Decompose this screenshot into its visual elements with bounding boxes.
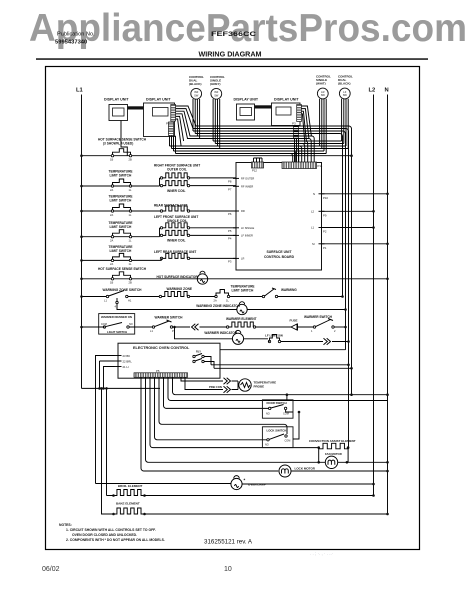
- wire box1 drop to row1: [121, 121, 127, 156]
- wire EOC drop 7: [146, 377, 318, 462]
- svg-text:P5: P5: [228, 229, 232, 233]
- wire row warmer: [82, 326, 105, 328]
- svg-text:(3 SHOWN, 4 USED): (3 SHOWN, 4 USED): [103, 142, 133, 146]
- wire lock switch right: [293, 412, 299, 439]
- svg-text:WARMER SWITCH: WARMER SWITCH: [155, 315, 184, 319]
- pin P10 board right N: [319, 193, 325, 195]
- svg-text:P: P: [172, 329, 174, 333]
- svg-text:LIMIT SWITCH: LIMIT SWITCH: [110, 225, 132, 229]
- wire P2 to L2 area: [322, 227, 374, 229]
- connector chevron probe 1: [224, 378, 231, 384]
- diagram border frame: [46, 67, 420, 550]
- wire LF limit to chevron: [268, 341, 323, 343]
- pin P1 board right SI: [319, 243, 325, 245]
- resistor RF outer coil: [160, 177, 162, 179]
- svg-text:WARMER INDICATOR: WARMER INDICATOR: [204, 331, 238, 335]
- warming zone switch S1: [106, 295, 108, 297]
- wire row LR: [82, 259, 162, 261]
- svg-text:SURFACE UNIT: SURFACE UNIT: [266, 250, 292, 254]
- wire EOC pin21 loop: [104, 367, 115, 389]
- svg-text:P12: P12: [252, 169, 257, 173]
- wire bundle line 8: [215, 144, 343, 163]
- svg-text:N: N: [385, 88, 389, 94]
- hot surface sense switch 1: [111, 155, 113, 157]
- svg-text:AppliancePartsPros.com: AppliancePartsPros.com: [29, 7, 467, 50]
- resistor RF inner coil: [160, 184, 162, 186]
- svg-text:06/02: 06/02: [42, 566, 60, 573]
- title underline rule: [36, 58, 428, 60]
- svg-text:1L: 1L: [129, 262, 132, 266]
- svg-text:L2: L2: [369, 88, 376, 94]
- pin P23 EOC: [115, 355, 122, 357]
- svg-text:P7: P7: [228, 188, 232, 192]
- LF limit switch S5: [268, 340, 270, 342]
- wire convection stubs: [319, 448, 348, 463]
- wire L1 rail: [81, 95, 83, 389]
- lamp warming zone indicator: [237, 304, 247, 314]
- wire relay output 1: [211, 364, 349, 366]
- resistor RR coil: [160, 210, 162, 212]
- svg-text:PRB CON: PRB CON: [209, 385, 222, 389]
- svg-text:4: 4: [115, 305, 117, 309]
- warmer limit switch S4: [313, 326, 315, 328]
- wire control C drops: [320, 99, 327, 154]
- svg-text:21 LI: 21 LI: [123, 365, 129, 369]
- pin P2 board right L1: [319, 227, 325, 229]
- wire bundle line 14 from U2 pins: [176, 116, 184, 146]
- control switch single grey B: [211, 88, 222, 99]
- svg-text:INNER COIL: INNER COIL: [167, 239, 185, 243]
- svg-text:2A: 2A: [110, 262, 113, 266]
- wire RF outer to P8: [190, 177, 236, 179]
- wire bundle line 4: [195, 134, 342, 297]
- svg-text:1L: 1L: [129, 188, 132, 192]
- svg-text:WARMER ELEMENT: WARMER ELEMENT: [226, 317, 257, 321]
- wire bake row: [145, 513, 388, 515]
- temperature limit switch 2: [111, 210, 113, 212]
- wire bundle line 11: [174, 151, 325, 163]
- pin P21 EOC: [115, 366, 122, 368]
- warmer drawer light switch box S2: [99, 314, 135, 335]
- wire limit switch to warming limit: [230, 296, 264, 298]
- svg-text:FAN MOTOR: FAN MOTOR: [325, 452, 342, 456]
- pin P22 EOC: [115, 360, 122, 362]
- resistor LF inner coil: [160, 234, 162, 236]
- svg-text:OUTER COIL: OUTER COIL: [167, 168, 187, 172]
- wire EOC pin22 loop: [100, 361, 115, 388]
- wire warmer indicator to LF limit: [244, 338, 268, 340]
- pin P4 board left: [233, 234, 239, 236]
- wire EOC drop 1: [173, 377, 388, 394]
- svg-text:1B: 1B: [110, 281, 113, 285]
- svg-text:23 BK: 23 BK: [123, 354, 131, 358]
- wire N rail: [387, 95, 389, 515]
- fuse F1: [291, 324, 298, 331]
- svg-text:INNER COIL: INNER COIL: [167, 189, 185, 193]
- svg-text:1L: 1L: [129, 239, 132, 243]
- svg-text:*: *: [244, 478, 246, 483]
- connector P1 display unit 2 right: [171, 105, 176, 122]
- wire EOC drop 5: [155, 377, 267, 440]
- pin P7 board left: [233, 185, 239, 187]
- svg-text:FEF366CC: FEF366CC: [211, 31, 257, 38]
- wire P9 to L2 rail: [322, 210, 374, 212]
- svg-text:N: N: [313, 192, 315, 196]
- svg-text:CONVECTION ASSIST ELEMENT: CONVECTION ASSIST ELEMENT: [309, 439, 356, 443]
- svg-text:RF INNER: RF INNER: [241, 185, 253, 189]
- connector P11 board top: [282, 162, 317, 169]
- svg-text:H1: H1: [128, 299, 132, 303]
- svg-text:COM: COM: [283, 413, 289, 416]
- svg-text:WARMING: WARMING: [281, 288, 297, 292]
- resistor warming zone element: [159, 295, 161, 297]
- wire door switch riser: [286, 395, 288, 400]
- lamp hot surface indicator: [197, 274, 207, 284]
- svg-text:NO: NO: [129, 323, 133, 326]
- svg-text:P3: P3: [228, 260, 232, 264]
- connector chevron probe 2: [224, 386, 231, 392]
- connector P12 board top small: [252, 162, 264, 168]
- resistor broil element: [114, 490, 145, 496]
- svg-text:WARMING ZONE: WARMING ZONE: [167, 287, 193, 291]
- svg-text:DISPLAY UNIT: DISPLAY UNIT: [104, 98, 129, 102]
- svg-text:Publication No.: Publication No.: [57, 32, 95, 38]
- svg-text:2B: 2B: [129, 158, 132, 162]
- svg-text:SI: SI: [312, 242, 315, 246]
- svg-text:P6: P6: [228, 212, 232, 216]
- svg-text:L1: L1: [311, 226, 315, 230]
- svg-text:DOOR SWITCH: DOOR SWITCH: [267, 401, 287, 405]
- resistor LF outer coil: [160, 227, 162, 229]
- wire bundle line 5: [176, 111, 315, 162]
- wire row hot-surface-2: [82, 278, 388, 280]
- temperature limit switch 3: [111, 236, 113, 238]
- temperature limit switch 1: [111, 185, 113, 187]
- wire EOC drop 3: [164, 377, 269, 408]
- svg-text:HOT SURFACE SENSE SWITCH: HOT SURFACE SENSE SWITCH: [98, 267, 147, 271]
- svg-text:LF INNER: LF INNER: [241, 234, 253, 238]
- wire P10 to N rail: [322, 193, 388, 195]
- svg-text:P1: P1: [323, 246, 327, 250]
- svg-text:P2: P2: [323, 230, 327, 234]
- svg-text:SW: SW: [321, 93, 326, 97]
- resistor convection assist element: [319, 443, 349, 449]
- wire box2 bottom stubs: [170, 136, 176, 154]
- resistor bake element: [114, 508, 145, 514]
- wire row LF: [82, 236, 160, 238]
- wire EOC drop 6: [150, 377, 319, 447]
- resistor LR coil: [160, 257, 162, 259]
- wire warming row to ribbon: [278, 296, 343, 298]
- svg-text:(GREY): (GREY): [210, 82, 221, 86]
- temperature limit switch 4: [111, 259, 113, 261]
- wire EOC pin23 loop: [96, 356, 115, 484]
- svg-text:L1: L1: [76, 88, 84, 94]
- wire broil feed drop: [106, 388, 108, 495]
- svg-text:SW: SW: [214, 93, 219, 97]
- svg-text:(WHIT): (WHIT): [316, 82, 326, 86]
- svg-text:LF SINGLE: LF SINGLE: [241, 226, 255, 230]
- svg-text:P5: P5: [156, 369, 160, 373]
- resistor warmer element: [226, 326, 228, 328]
- wire bundle line 12: [176, 154, 327, 163]
- wire control D drops: [342, 99, 349, 149]
- svg-text:LF LIMIT SW: LF LIMIT SW: [265, 333, 283, 337]
- svg-text:LR: LR: [241, 257, 244, 261]
- wire EOC drop 4: [159, 377, 287, 434]
- wire board P12 feeds: [254, 158, 263, 162]
- svg-text:DISPLAY UNIT: DISPLAY UNIT: [234, 98, 259, 102]
- svg-text:BROIL ELEMENT: BROIL ELEMENT: [118, 484, 143, 488]
- control switch dual black A: [191, 88, 202, 99]
- pin P8 board left: [233, 177, 239, 179]
- svg-text:PROBE: PROBE: [254, 385, 265, 389]
- wire bundle line 13 from U4 pins: [301, 106, 311, 144]
- wire row RR: [82, 210, 162, 212]
- lamp warmer indicator: [232, 333, 243, 344]
- svg-text:SW: SW: [343, 93, 348, 97]
- wire row hot-surface-1: [82, 155, 352, 157]
- wire oven lamp row: [96, 483, 374, 486]
- wire fuse to warmer limit switch: [298, 326, 315, 328]
- wire P1 to N rail: [322, 243, 388, 245]
- wire bundle line 2: [176, 109, 349, 448]
- svg-text:OVEN DOOR CLOSED AND UNLOCKED.: OVEN DOOR CLOSED AND UNLOCKED.: [72, 533, 137, 537]
- svg-text:1: 1: [311, 329, 313, 333]
- svg-text:10: 10: [224, 566, 232, 573]
- svg-text:LIMIT SWITCH: LIMIT SWITCH: [110, 174, 132, 178]
- connector chevron LF right: [324, 338, 331, 344]
- svg-text:1B: 1B: [110, 158, 113, 162]
- wire warmer element to fuse: [256, 326, 291, 328]
- wire warming indicator left: [117, 304, 237, 310]
- hot surface sense switch 2: [111, 278, 113, 280]
- svg-text:(BLACK): (BLACK): [189, 82, 202, 86]
- lock motor M2: [279, 465, 291, 477]
- svg-text:2A: 2A: [110, 213, 113, 217]
- lock switch S7 box: [262, 427, 293, 448]
- wire bundle line 6: [176, 114, 312, 163]
- svg-text:P9: P9: [323, 213, 327, 217]
- connector P4 display unit 4 bottom: [294, 126, 299, 139]
- wire warming coil to limit switch: [190, 296, 216, 298]
- svg-text:1. CIRCUIT SHOWN WITH ALL CO: 1. CIRCUIT SHOWN WITH ALL CONTROLS SET T…: [66, 528, 156, 532]
- temperature limit switch 5: [215, 295, 217, 297]
- svg-text:P10: P10: [323, 196, 328, 200]
- svg-text:(BLACK): (BLACK): [338, 82, 351, 86]
- svg-text:. . ; ·. , · . ..·: . . ; ·. , · . ..·: [310, 551, 333, 556]
- oven lamp DS1: [231, 478, 242, 489]
- wire relay output 2: [214, 367, 352, 369]
- wire bundle line 3: [193, 131, 346, 350]
- svg-text:NOTES:: NOTES:: [59, 523, 72, 527]
- wire EOC drop 8: [141, 377, 278, 471]
- svg-text:RR: RR: [241, 209, 245, 213]
- wire broil row: [107, 495, 374, 497]
- svg-text:NO: NO: [266, 413, 270, 416]
- wire control B drops: [213, 99, 220, 149]
- display unit 3 box: [237, 104, 255, 120]
- wire EOC top right feed: [220, 349, 346, 351]
- svg-text:LOCK SWITCH: LOCK SWITCH: [267, 428, 287, 432]
- svg-text:2A: 2A: [110, 239, 113, 243]
- svg-text:NO: NO: [265, 444, 269, 447]
- wire box4 bottom drops: [295, 139, 299, 163]
- door switch S6 box: [262, 400, 293, 418]
- wire row RF: [82, 185, 160, 187]
- svg-text:2A: 2A: [214, 298, 217, 302]
- wire RF inner to P7: [190, 185, 236, 187]
- svg-text:L1: L1: [104, 299, 107, 303]
- wire bundle line 10: [172, 149, 349, 163]
- svg-text:1L: 1L: [226, 298, 229, 302]
- display unit 2 box: [144, 103, 175, 137]
- svg-text:P8: P8: [228, 180, 232, 184]
- display unit 4 box: [272, 103, 301, 126]
- temperature probe RT1: [239, 379, 251, 391]
- svg-text:L2: L2: [311, 210, 315, 214]
- svg-text:2. COMPONENTS WITH * DO NO: 2. COMPONENTS WITH * DO NOT APPEAR ON AL…: [66, 538, 165, 542]
- svg-text:RF OUTER: RF OUTER: [241, 177, 254, 181]
- wire RR to P6: [190, 210, 236, 212]
- wire bundle line 9: [170, 146, 347, 163]
- wire warmer indicator drop: [175, 327, 233, 339]
- wire door switch right: [286, 410, 293, 412]
- wire bundle line 7: [213, 141, 342, 163]
- surface unit control board U5: [236, 163, 322, 271]
- electronic oven control U6: [118, 343, 220, 378]
- svg-text:HOT SURFACE INDICATOR: HOT SURFACE INDICATOR: [157, 275, 199, 279]
- wire bundle line 1: [176, 106, 352, 395]
- wire warmer switch to chevron: [173, 326, 190, 328]
- svg-text:316255121 rev. A: 316255121 rev. A: [204, 539, 253, 546]
- svg-text:LOCK MOTOR: LOCK MOTOR: [295, 466, 316, 470]
- wire ribbon link U1-U2: [128, 106, 144, 109]
- connector chevron warmer left: [192, 324, 199, 330]
- wire LF inner to P4: [190, 234, 236, 236]
- svg-text:ELECTRONIC OVEN CONTROL: ELECTRONIC OVEN CONTROL: [133, 346, 190, 350]
- svg-text:DISPLAY UNIT: DISPLAY UNIT: [146, 98, 171, 102]
- svg-text:1L: 1L: [129, 213, 132, 217]
- wire chevron to warmer element: [200, 326, 228, 328]
- wire L2 rail: [373, 95, 375, 496]
- wire lock motor right: [291, 470, 388, 472]
- svg-text:BAKE ELEMENT: BAKE ELEMENT: [116, 502, 140, 506]
- pin P9 board right L2: [319, 210, 325, 212]
- wire LR to P3: [190, 257, 236, 259]
- svg-text:5995437340: 5995437340: [55, 40, 87, 46]
- connector P2 display unit 2 bottom: [169, 122, 174, 136]
- wire LF coil link: [159, 228, 161, 237]
- wire LF outer to P5: [190, 227, 236, 229]
- warmer switch S3: [152, 326, 154, 328]
- svg-text:L1: L1: [150, 329, 153, 333]
- svg-text:LIGHT SWITCH: LIGHT SWITCH: [107, 330, 127, 334]
- pin P5 board left: [233, 227, 239, 229]
- svg-text:P11: P11: [318, 164, 323, 168]
- control switch dual black D: [339, 88, 350, 99]
- svg-text:P3: P3: [292, 122, 296, 126]
- svg-text:CONTROL BOARD: CONTROL BOARD: [264, 255, 295, 259]
- pin P6 board left: [233, 210, 239, 212]
- wire ribbon link U3-U4: [255, 105, 272, 108]
- wire EOC drop 2: [168, 377, 388, 400]
- svg-text:COM: COM: [285, 440, 291, 443]
- wire chevron to ribbon: [332, 341, 349, 343]
- svg-text:DISPLAY UNIT: DISPLAY UNIT: [274, 98, 299, 102]
- svg-text:2B: 2B: [129, 281, 132, 285]
- warming zone limit switch: [262, 295, 264, 297]
- pin P3 board left: [233, 257, 239, 259]
- svg-text:WARMER DRAWER ON: WARMER DRAWER ON: [101, 315, 132, 319]
- wire row warming: [82, 296, 108, 298]
- svg-text:COM: COM: [101, 323, 107, 326]
- connector P3 display unit 4 right: [297, 105, 302, 122]
- svg-text:LIMIT SWITCH: LIMIT SWITCH: [232, 288, 254, 292]
- wire warming switch to coil: [128, 296, 160, 298]
- svg-text:LIMIT SWITCH: LIMIT SWITCH: [110, 199, 132, 203]
- wire RF coil link: [159, 178, 161, 186]
- svg-text:FUSE: FUSE: [290, 319, 298, 323]
- svg-text:SW: SW: [194, 93, 199, 97]
- svg-text:2: 2: [334, 329, 336, 333]
- display unit 1 box: [109, 105, 128, 121]
- svg-text:2A: 2A: [110, 188, 113, 192]
- svg-text:22 BRL: 22 BRL: [123, 359, 133, 363]
- wire bake feed drop: [102, 388, 115, 514]
- svg-text:RLY: RLY: [196, 350, 201, 354]
- svg-text:WARMING ZONE INDICATOR: WARMING ZONE INDICATOR: [196, 304, 240, 308]
- wire warming indicator right: [247, 309, 345, 311]
- wire warmer row to ribbon: [334, 326, 345, 328]
- wire control A drops: [193, 99, 200, 139]
- svg-text:REAR SURFACE UNIT: REAR SURFACE UNIT: [154, 204, 188, 208]
- fan motor M1: [325, 456, 337, 468]
- wire fan motor leads: [319, 461, 388, 463]
- wire probe leads: [181, 377, 238, 389]
- control switch single white C: [317, 88, 328, 99]
- svg-text:P4: P4: [228, 237, 232, 241]
- wire L1 bottom corner: [82, 387, 161, 389]
- connector P5 EOC bottom: [134, 373, 188, 378]
- svg-text:WIRING DIAGRAM: WIRING DIAGRAM: [198, 50, 261, 59]
- svg-text:LIMIT SWITCH: LIMIT SWITCH: [110, 249, 132, 253]
